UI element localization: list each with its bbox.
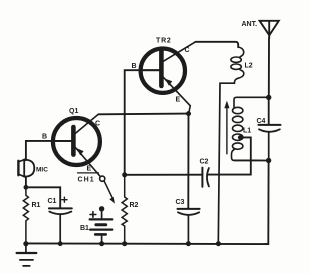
wire L1 bottom to C4 node	[234, 159, 268, 161]
svg-text:B1: B1	[80, 225, 89, 232]
node TR2 base / R2 / C2	[122, 172, 127, 177]
node C4 bottom / L1 bottom	[266, 158, 271, 163]
capacitor C1	[48, 197, 72, 244]
transistor Q1	[42, 108, 100, 177]
wire TR2 base down to R2 node	[125, 70, 160, 175]
svg-text:E: E	[176, 97, 181, 104]
svg-text:C: C	[185, 47, 190, 54]
terminal CH1 open circle	[78, 173, 115, 204]
wire bottom rail	[26, 242, 267, 245]
svg-text:CH1: CH1	[78, 176, 95, 183]
node C1/rail	[58, 241, 63, 246]
svg-text:L2: L2	[245, 63, 253, 70]
node L1 tap	[238, 135, 243, 140]
resistor R1	[23, 187, 40, 243]
wire antenna down to node	[268, 38, 270, 97]
wire Q1 collector horizontal to TR2 emitter node	[98, 113, 188, 116]
svg-text:C3: C3	[176, 199, 185, 206]
svg-text:C2: C2	[200, 159, 209, 166]
inductor L1	[232, 97, 269, 160]
node antenna / L1 top	[266, 95, 271, 100]
wire mic bottom to node	[25, 177, 27, 188]
L1 tuning arrow	[224, 101, 229, 154]
svg-text:B: B	[132, 63, 137, 70]
svg-text:B: B	[42, 134, 47, 141]
resistor R2	[122, 175, 138, 244]
microphone MIC	[18, 159, 48, 176]
capacitor C4	[257, 118, 281, 161]
antenna ANT	[242, 21, 279, 38]
battery B1	[80, 206, 112, 244]
wire node to C4	[268, 97, 270, 124]
svg-text:C1: C1	[48, 198, 57, 205]
wire L1 tap to C2 corner	[240, 137, 251, 160]
wire C2 branch from base node	[125, 174, 203, 176]
wire emitter node down to C3	[187, 114, 189, 209]
svg-text:L1: L1	[243, 128, 251, 135]
svg-text:TR2: TR2	[156, 38, 172, 45]
wire mic top to Q1 base corner	[26, 141, 72, 160]
capacitor C3	[176, 199, 200, 244]
capacitor C2	[200, 159, 251, 187]
svg-text:C: C	[95, 121, 100, 128]
svg-text:MIC: MIC	[36, 167, 48, 174]
wire node to C1	[26, 187, 60, 208]
node R2/rail	[122, 241, 127, 246]
svg-text:C4: C4	[257, 118, 266, 125]
node ground/rail	[23, 241, 28, 246]
wire C4 node down to rail corner	[266, 161, 269, 245]
svg-text:Q1: Q1	[69, 108, 78, 115]
svg-text:E: E	[87, 166, 92, 173]
node TR2 emitter / Q1 collector	[186, 111, 191, 116]
node L2 line/rail	[216, 241, 221, 246]
inductor L2	[218, 47, 252, 244]
svg-text:R2: R2	[130, 202, 139, 209]
transistor TR2	[132, 38, 196, 114]
node B1/rail	[99, 241, 104, 246]
wire TR2 collector to L2	[196, 42, 239, 47]
ground	[17, 244, 37, 266]
node mic/R1/C1 junction	[24, 185, 29, 190]
node C3/rail	[186, 241, 191, 246]
svg-text:R1: R1	[32, 202, 41, 209]
svg-text:ANT.: ANT.	[242, 21, 258, 28]
